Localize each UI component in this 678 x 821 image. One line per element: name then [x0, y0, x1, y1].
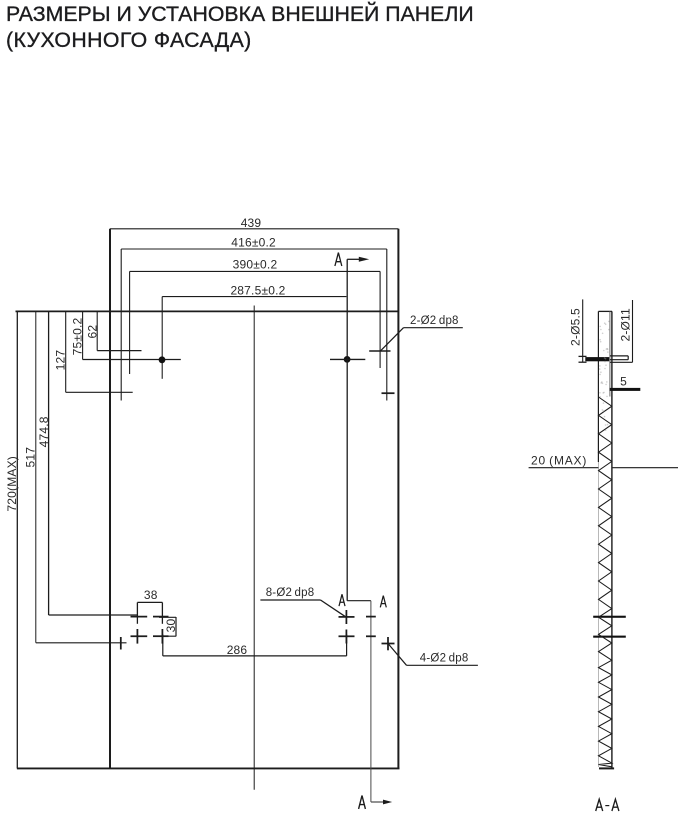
- section: strip left edge (dark upper part): [597, 311, 599, 462]
- lower-right hole crosses column x=346.4: [339, 616, 355, 618]
- svg-text:2-Ø2 dp8: 2-Ø2 dp8: [410, 315, 459, 327]
- svg-text:127: 127: [53, 350, 67, 371]
- letter A (bottom): [359, 796, 366, 809]
- section line A jog: [347, 600, 371, 602]
- dimension 390±0.2: [130, 270, 381, 272]
- hole (filled) right of 287.5 pair: [344, 356, 351, 363]
- section: clamp bar upper: [593, 616, 626, 618]
- section: clamp bar lower: [593, 636, 626, 638]
- section: faint filler speckles: [602, 333, 604, 335]
- label A-A right letter: [612, 799, 619, 811]
- section: 2-Ø11 extension line: [632, 300, 634, 362]
- label A-A left letter: [596, 799, 603, 811]
- crosshair of right filled hole: [330, 358, 365, 360]
- section: panel strip top cap: [598, 310, 612, 312]
- svg-text:286: 286: [227, 643, 248, 657]
- svg-text:517: 517: [24, 447, 38, 468]
- section: strip left edge (light lower part): [598, 462, 600, 767]
- svg-text:2-Ø11: 2-Ø11: [618, 308, 632, 342]
- svg-text:30: 30: [164, 619, 178, 633]
- dimension 287.5±0.2: [162, 296, 346, 298]
- dimension 75±0.2: [82, 311, 84, 359]
- section arrow top: [347, 258, 360, 260]
- dimension 416±0.2: [121, 248, 387, 250]
- svg-text:439: 439: [241, 216, 262, 230]
- dimension 439: [110, 228, 398, 230]
- section: insulation zigzag hatch: [599, 397, 612, 767]
- svg-text:474.8: 474.8: [37, 416, 51, 447]
- letter A at jog right: [380, 596, 386, 608]
- dimension 720(MAX): [16, 311, 18, 768]
- dimension 127: [65, 311, 67, 392]
- leader 4-Ø2 dp8: [388, 644, 407, 666]
- section: inner vertical line: [609, 311, 611, 396]
- section: strip right edge: [611, 311, 613, 768]
- leader 2-Ø2 dp8: [381, 328, 404, 351]
- panel outline: right edge: [397, 229, 399, 769]
- panel outline: top edge (extends left to vertical dims): [16, 310, 399, 312]
- svg-text:4-Ø2 dp8: 4-Ø2 dp8: [420, 652, 469, 664]
- section: 5 thick bar: [610, 388, 641, 391]
- letter A at jog left: [339, 594, 345, 606]
- leader 8-Ø2 dp8: [260, 599, 320, 601]
- panel vertical centre line: [253, 306, 255, 790]
- svg-text:390±0.2: 390±0.2: [233, 257, 278, 271]
- ticks on section line x=370.9: [366, 616, 376, 618]
- hole cross at 517 end (left corner hole): [120, 637, 122, 650]
- section: 20 (MAX) dimension line: [529, 467, 599, 469]
- dimension 286: [163, 655, 347, 657]
- svg-text:62: 62: [86, 325, 100, 339]
- hole cross right 390 pair: [369, 350, 390, 352]
- section: bottom cap: [599, 767, 614, 769]
- svg-text:287.5±0.2: 287.5±0.2: [230, 283, 285, 297]
- svg-text:720(MAX): 720(MAX): [5, 456, 19, 512]
- panel outline: bottom edge (extends left to vertical dims): [17, 767, 400, 769]
- svg-text:8-Ø2 dp8: 8-Ø2 dp8: [266, 587, 315, 599]
- svg-text:2-Ø5.5: 2-Ø5.5: [568, 308, 582, 346]
- svg-text:38: 38: [144, 588, 158, 602]
- svg-text:75±0.2: 75±0.2: [70, 317, 84, 355]
- section: fixing screw bar: [585, 357, 609, 361]
- svg-text:5: 5: [620, 375, 627, 389]
- hole (filled) left of 287.5 pair: [159, 356, 166, 363]
- dimension 62: [96, 311, 98, 350]
- hole cross right corner (4-Ø2): [382, 643, 395, 645]
- section line A (upper vertical): [346, 259, 348, 600]
- svg-text:416±0.2: 416±0.2: [231, 236, 276, 250]
- section: 2-Ø5.5 extension line: [582, 299, 584, 362]
- lower-left hole crosses row 2: [131, 635, 148, 637]
- dimension 517: [35, 311, 37, 642]
- section: bracket channel right: [610, 355, 628, 357]
- letter A (top): [335, 253, 342, 266]
- dimension 30: [175, 617, 177, 636]
- dimension 38: [137, 601, 162, 603]
- title: [6, 2, 474, 27]
- panel outline: left edge: [109, 229, 111, 769]
- dimension 474.8: [48, 311, 50, 615]
- lower-left hole crosses row 1: [131, 616, 148, 618]
- svg-text:20 (MAX): 20 (MAX): [531, 453, 587, 467]
- section arrow bottom: [371, 801, 385, 803]
- section line A (lower vertical, thin): [370, 601, 372, 802]
- hole cross right 416 pair: [382, 392, 395, 394]
